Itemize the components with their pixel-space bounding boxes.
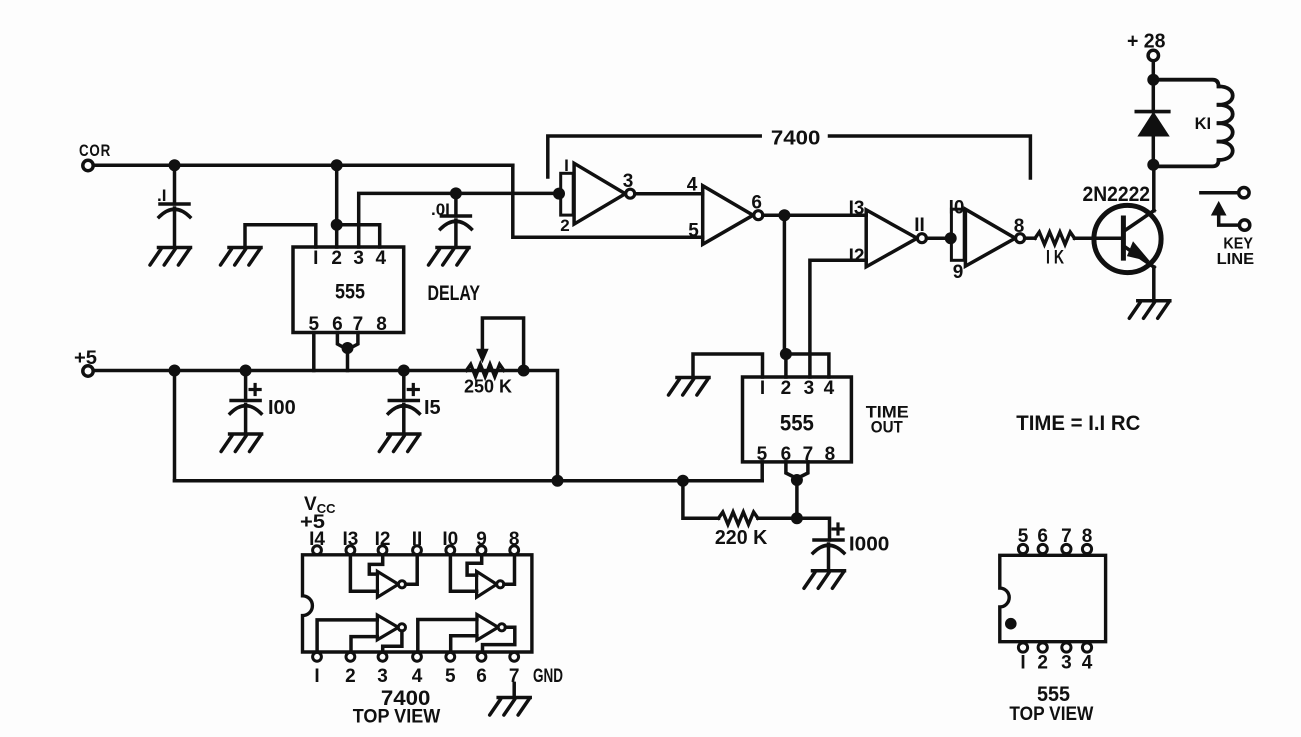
svg-text:7: 7 bbox=[1061, 526, 1072, 547]
svg-text:8: 8 bbox=[1014, 216, 1025, 237]
svg-text:2: 2 bbox=[331, 248, 342, 269]
svg-text:4: 4 bbox=[1082, 653, 1093, 674]
svg-text:6: 6 bbox=[751, 193, 762, 214]
svg-text:I: I bbox=[313, 248, 318, 269]
svg-text:I00: I00 bbox=[268, 397, 296, 419]
svg-text:COR: COR bbox=[79, 141, 111, 160]
svg-text:I000: I000 bbox=[849, 534, 890, 556]
svg-text:8: 8 bbox=[509, 529, 520, 550]
svg-text:I0: I0 bbox=[442, 529, 458, 550]
svg-text:I: I bbox=[760, 378, 765, 399]
svg-text:555: 555 bbox=[1037, 683, 1070, 706]
svg-text:4: 4 bbox=[687, 175, 698, 196]
svg-text:I2: I2 bbox=[375, 529, 391, 550]
svg-text:.I: .I bbox=[157, 186, 166, 205]
svg-text:2: 2 bbox=[345, 666, 356, 687]
svg-text:2: 2 bbox=[560, 216, 569, 235]
svg-text:555: 555 bbox=[780, 411, 814, 436]
svg-text:+ 28: + 28 bbox=[1127, 31, 1166, 53]
svg-text:I: I bbox=[1020, 653, 1025, 674]
svg-text:I5: I5 bbox=[424, 397, 441, 419]
svg-text:3: 3 bbox=[1061, 653, 1072, 674]
svg-text:4: 4 bbox=[376, 248, 387, 269]
svg-text:I: I bbox=[314, 666, 319, 687]
svg-text:II: II bbox=[412, 529, 423, 550]
svg-text:OUT: OUT bbox=[871, 418, 904, 437]
svg-text:6: 6 bbox=[476, 666, 487, 687]
svg-text:5: 5 bbox=[445, 666, 456, 687]
svg-text:.0I: .0I bbox=[431, 200, 450, 219]
svg-text:8: 8 bbox=[825, 444, 836, 465]
svg-text:TOP VIEW: TOP VIEW bbox=[353, 707, 441, 728]
svg-text:DELAY: DELAY bbox=[428, 282, 481, 305]
svg-text:6: 6 bbox=[1037, 526, 1048, 547]
svg-text:9: 9 bbox=[953, 262, 964, 283]
svg-text:3: 3 bbox=[623, 171, 634, 192]
svg-text:2: 2 bbox=[781, 378, 792, 399]
svg-text:I3: I3 bbox=[849, 198, 865, 219]
svg-text:GND: GND bbox=[533, 666, 563, 687]
svg-text:2: 2 bbox=[1037, 653, 1048, 674]
svg-text:II: II bbox=[914, 215, 925, 236]
svg-text:TOP VIEW: TOP VIEW bbox=[1009, 704, 1093, 725]
svg-text:7400: 7400 bbox=[771, 128, 821, 150]
svg-text:KEY: KEY bbox=[1223, 235, 1253, 252]
svg-text:I2: I2 bbox=[849, 246, 865, 267]
svg-text:TIME = I.I RC: TIME = I.I RC bbox=[1016, 412, 1140, 435]
svg-text:555: 555 bbox=[335, 281, 365, 304]
svg-text:8: 8 bbox=[1082, 526, 1093, 547]
svg-text:I0: I0 bbox=[949, 198, 965, 219]
svg-text:3: 3 bbox=[377, 666, 388, 687]
svg-text:5: 5 bbox=[688, 221, 699, 242]
svg-text:3: 3 bbox=[804, 378, 815, 399]
svg-text:5: 5 bbox=[1018, 526, 1029, 547]
svg-text:KI: KI bbox=[1195, 114, 1212, 133]
svg-text:8: 8 bbox=[376, 314, 387, 335]
svg-text:4: 4 bbox=[412, 666, 423, 687]
svg-text:220 K: 220 K bbox=[715, 527, 768, 549]
svg-text:I: I bbox=[564, 156, 569, 175]
svg-text:I K: I K bbox=[1046, 248, 1064, 269]
svg-text:3: 3 bbox=[353, 248, 364, 269]
svg-text:LINE: LINE bbox=[1217, 251, 1255, 268]
svg-text:9: 9 bbox=[476, 529, 487, 550]
svg-text:I3: I3 bbox=[342, 529, 358, 550]
svg-text:4: 4 bbox=[824, 378, 835, 399]
svg-text:+5: +5 bbox=[300, 512, 325, 533]
svg-text:2N2222: 2N2222 bbox=[1083, 183, 1151, 206]
svg-text:250 K: 250 K bbox=[464, 377, 512, 397]
